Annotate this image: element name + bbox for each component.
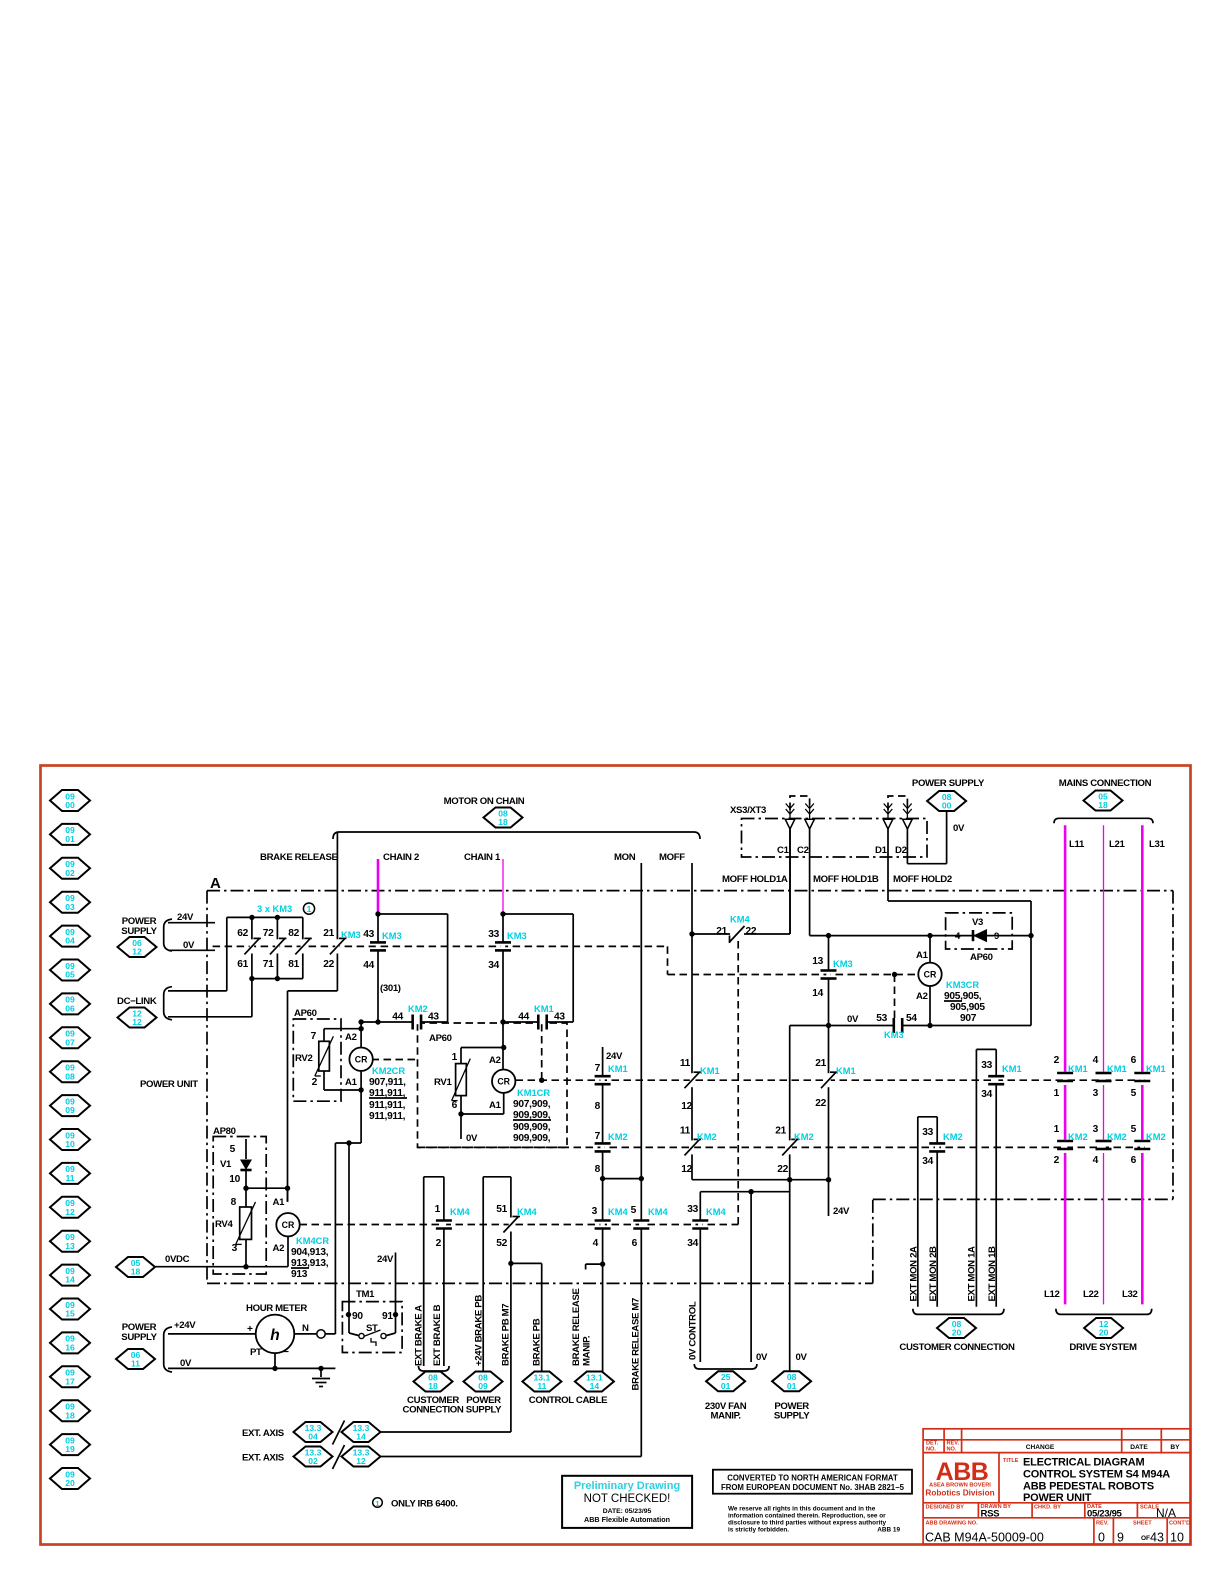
hexagon flag 09/17 xyxy=(50,1366,90,1387)
wire: +24V to hour meter xyxy=(168,1333,256,1335)
wire: KM2CR A2 link xyxy=(360,1022,362,1048)
hexagon flag 09/19 xyxy=(50,1434,90,1455)
svg-text:5: 5 xyxy=(1131,1124,1137,1135)
svg-text:909,909,: 909,909, xyxy=(513,1133,551,1144)
AP60 dashed box around KM1CR xyxy=(418,1023,568,1147)
contact KM3 82/81 xyxy=(301,939,305,953)
hexagon flag 09/15 xyxy=(50,1299,90,1320)
mains line magenta x=1103.5 xyxy=(1103,825,1105,1072)
dashed KM1CR link xyxy=(541,1024,543,1080)
node: CHAIN2 drop xyxy=(377,914,379,1022)
svg-text:D1: D1 xyxy=(875,845,888,856)
svg-text:2: 2 xyxy=(312,1077,318,1088)
hexagon flag 08/18 customer conn xyxy=(414,1372,453,1392)
svg-text:CHKD. BY: CHKD. BY xyxy=(1034,1505,1061,1511)
wire: KM1CR A2 link xyxy=(502,1022,504,1070)
chain2 magenta xyxy=(377,859,380,914)
hexagon flag 25/01 fan xyxy=(706,1371,745,1391)
svg-text:CR: CR xyxy=(497,1077,510,1087)
svg-text:14: 14 xyxy=(812,988,823,999)
svg-text:KM1: KM1 xyxy=(1107,1064,1127,1074)
svg-text:4: 4 xyxy=(1093,1155,1099,1166)
svg-text:HOUR METER: HOUR METER xyxy=(246,1303,307,1314)
svg-text:11: 11 xyxy=(680,1126,691,1137)
svg-text:KM4: KM4 xyxy=(706,1207,726,1217)
preliminary drawing box xyxy=(562,1476,692,1528)
svg-text:12: 12 xyxy=(681,1164,692,1175)
svg-text:0: 0 xyxy=(1098,1531,1105,1545)
svg-text:ELECTRICAL DIAGRAM: ELECTRICAL DIAGRAM xyxy=(1023,1457,1145,1469)
svg-text:KM2: KM2 xyxy=(794,1132,814,1142)
hexagon flag 13.1/14 xyxy=(575,1372,614,1392)
svg-text:KM1: KM1 xyxy=(1068,1064,1088,1074)
svg-text:−: − xyxy=(283,1347,289,1358)
svg-text:SUPPLY: SUPPLY xyxy=(774,1411,810,1422)
svg-text:h: h xyxy=(270,1327,279,1344)
svg-text:SUPPLY: SUPPLY xyxy=(121,1332,157,1343)
bracket drive system bottom xyxy=(1056,1309,1152,1315)
wire: V1/RV4 column xyxy=(245,1139,247,1159)
dashed KM2 row xyxy=(418,1146,1146,1148)
wire: V3 diode line xyxy=(930,935,1031,937)
svg-text:L11: L11 xyxy=(1069,839,1085,850)
svg-text:is strictly forbidden.: is strictly forbidden. xyxy=(728,1527,789,1534)
svg-text:911,911,: 911,911, xyxy=(369,1111,406,1122)
svg-text:12: 12 xyxy=(65,1207,75,1217)
svg-text:KM1: KM1 xyxy=(836,1066,856,1076)
svg-text:A2: A2 xyxy=(489,1055,501,1066)
svg-text:22: 22 xyxy=(746,926,757,937)
svg-text:KM1: KM1 xyxy=(700,1066,720,1076)
wire: C2 drop to V3 feed xyxy=(809,828,811,936)
svg-text:KM2: KM2 xyxy=(697,1132,717,1142)
svg-text:11: 11 xyxy=(65,1173,74,1183)
hexagon flag 09/14 xyxy=(50,1265,90,1286)
svg-text:44: 44 xyxy=(392,1012,403,1023)
contact KM1 21/22 xyxy=(826,1073,830,1087)
svg-text:11: 11 xyxy=(131,1359,140,1369)
svg-text:14: 14 xyxy=(590,1381,600,1391)
svg-text:C2: C2 xyxy=(797,845,809,856)
svg-text:L12: L12 xyxy=(1044,1289,1059,1300)
svg-text:EXT MON 1A: EXT MON 1A xyxy=(967,1246,978,1302)
svg-text:04: 04 xyxy=(65,936,75,946)
border frame xyxy=(41,766,1191,1545)
svg-text:34: 34 xyxy=(981,1089,992,1100)
svg-text:14: 14 xyxy=(65,1275,75,1285)
dashed KM3 contact row xyxy=(213,945,668,947)
svg-text:DRIVE SYSTEM: DRIVE SYSTEM xyxy=(1069,1342,1137,1353)
svg-text:24V: 24V xyxy=(177,912,194,923)
contact KM2 1/2 xyxy=(1063,1140,1067,1149)
wire: MOFF vertical xyxy=(691,863,693,1180)
contact 72-71 vertical xyxy=(276,917,278,978)
hexagon flag 09/08 xyxy=(50,1061,90,1082)
contact KM3 53/54 xyxy=(893,1023,903,1027)
wire: V1 junction row xyxy=(246,1187,288,1189)
hexagon flag 08/18 motor on chain xyxy=(484,808,523,828)
svg-text:NO.: NO. xyxy=(926,1447,936,1453)
svg-text:A2: A2 xyxy=(273,1243,285,1254)
contact KM3 33/34 xyxy=(501,942,505,951)
svg-text:1: 1 xyxy=(435,1204,441,1215)
svg-text:17: 17 xyxy=(65,1376,75,1386)
varistor RV1 xyxy=(456,1064,467,1096)
svg-text:KM2: KM2 xyxy=(1107,1132,1127,1142)
svg-text:DESIGNED BY: DESIGNED BY xyxy=(926,1505,965,1511)
svg-text:06: 06 xyxy=(65,1004,75,1014)
svg-text:CONVERTED TO NORTH AMERICAN: CONVERTED TO NORTH AMERICAN FORMAT xyxy=(727,1474,898,1483)
hexagon flag 09/07 xyxy=(50,1027,90,1048)
hexagon flag 09/10 xyxy=(50,1129,90,1150)
svg-text:22: 22 xyxy=(323,959,334,970)
AP60 RV2 dash-dot box xyxy=(293,1019,341,1101)
svg-text:information contained therein.: information contained therein. Reproduct… xyxy=(728,1513,886,1520)
hexagon flag 09/13 xyxy=(50,1231,90,1252)
svg-text:CR: CR xyxy=(282,1220,295,1230)
svg-text:KM3: KM3 xyxy=(382,931,402,941)
wire: EXT BRAKE pair U xyxy=(424,1176,444,1178)
wire: KM3CR coil A1/A2 xyxy=(929,936,931,963)
wire: right loop down from 53/54 row xyxy=(789,1026,791,1180)
svg-text:L22: L22 xyxy=(1083,1289,1098,1300)
svg-text:01: 01 xyxy=(65,834,75,844)
svg-text:33: 33 xyxy=(922,1127,933,1138)
wire: hour meter N link xyxy=(294,1333,335,1335)
contact KM3 21/22 xyxy=(335,939,339,953)
svg-text:1: 1 xyxy=(307,904,312,914)
hexagon flag 08/20 customer xyxy=(937,1318,976,1338)
svg-text:N: N xyxy=(302,1323,309,1334)
wire: to hour meter N xyxy=(334,1143,336,1334)
wire: BRAKE RELEASE jog to KM4CR A1 xyxy=(288,990,338,992)
svg-text:CHANGE: CHANGE xyxy=(1026,1444,1055,1451)
contact KM4 3/4 xyxy=(600,1220,604,1229)
contact KM1 4/3 xyxy=(1101,1072,1105,1081)
svg-text:911,911,: 911,911, xyxy=(369,1100,406,1111)
svg-text:KM3CR: KM3CR xyxy=(946,980,979,990)
svg-text:+: + xyxy=(247,1324,253,1335)
svg-text:01: 01 xyxy=(721,1381,731,1391)
svg-text:XS3/XT3: XS3/XT3 xyxy=(730,805,766,816)
wire: KM1 44/43 row xyxy=(503,1021,573,1023)
svg-text:18: 18 xyxy=(131,1267,141,1277)
svg-text:34: 34 xyxy=(922,1156,933,1167)
svg-text:A1: A1 xyxy=(489,1100,502,1111)
svg-text:1: 1 xyxy=(375,1499,379,1508)
svg-text:905,905: 905,905 xyxy=(950,1002,985,1013)
svg-text:POWER UNIT: POWER UNIT xyxy=(1023,1492,1092,1504)
junction dots xyxy=(249,915,254,920)
wire: C1 drop xyxy=(789,828,791,934)
svg-text:EXT BRAKE B: EXT BRAKE B xyxy=(432,1304,443,1366)
svg-text:02: 02 xyxy=(65,868,75,878)
ground symbol xyxy=(312,1378,330,1380)
svg-text:AP80: AP80 xyxy=(213,1126,236,1137)
svg-text:18: 18 xyxy=(65,1410,75,1420)
contact KM3 72/71 xyxy=(275,939,279,953)
svg-text:FROM EUROPEAN DOCUMENT No.: FROM EUROPEAN DOCUMENT No. 3HAB 2821−5 xyxy=(721,1483,905,1492)
svg-text:2: 2 xyxy=(1054,1155,1060,1166)
node: CHAIN1 drop xyxy=(502,914,504,1022)
mains line magenta x=1065.1 xyxy=(1064,825,1067,1072)
svg-text:51: 51 xyxy=(496,1204,507,1215)
svg-text:907: 907 xyxy=(960,1013,977,1024)
svg-text:V3: V3 xyxy=(972,917,983,928)
svg-text:6: 6 xyxy=(1131,1155,1137,1166)
svg-text:KM1: KM1 xyxy=(1146,1064,1166,1074)
svg-text:NO.: NO. xyxy=(947,1447,957,1453)
dashed KM1 row xyxy=(516,1079,1146,1081)
contact KM2 44/43 xyxy=(412,1020,422,1024)
wire: KM2CR output down xyxy=(360,1090,362,1143)
svg-text:KM4: KM4 xyxy=(648,1207,668,1217)
hexagon flag 12/12 xyxy=(118,1008,157,1028)
contact 82-81 vertical xyxy=(302,917,304,978)
svg-text:10: 10 xyxy=(1170,1531,1184,1545)
svg-text:43: 43 xyxy=(428,1012,439,1023)
svg-text:3: 3 xyxy=(1093,1124,1099,1135)
hexagon flag 09/20 xyxy=(50,1468,90,1489)
wire: 7/8 contact column + MANIP xyxy=(602,1047,604,1372)
svg-text:KM4: KM4 xyxy=(450,1207,470,1217)
svg-text:24V: 24V xyxy=(377,1254,394,1265)
svg-text:3: 3 xyxy=(1093,1088,1099,1099)
dashed KM2CR link xyxy=(372,1059,418,1061)
diode V1 xyxy=(240,1169,251,1172)
svg-text:N/A: N/A xyxy=(1156,1506,1176,1520)
svg-text:TM1: TM1 xyxy=(356,1289,375,1300)
svg-text:DATE: 05/23/95: DATE: 05/23/95 xyxy=(603,1508,652,1515)
svg-text:16: 16 xyxy=(65,1343,75,1353)
svg-text:DATE: DATE xyxy=(1130,1444,1148,1451)
svg-text:15: 15 xyxy=(65,1309,75,1319)
svg-text:KM1: KM1 xyxy=(1002,1064,1022,1074)
wire: EXT AXIS row1 xyxy=(381,1431,511,1433)
hexagon flag 08/01 power supply xyxy=(772,1371,811,1391)
TM1 dash-dot box xyxy=(342,1302,402,1353)
wire: brake PB pair U xyxy=(483,1176,511,1178)
contact KM2 7/8 xyxy=(600,1143,604,1152)
slash between ext axis hexagons r1 xyxy=(333,1421,345,1445)
svg-text:2: 2 xyxy=(1054,1055,1060,1066)
wire: DC-LINK lower xyxy=(168,1016,252,1018)
svg-text:03: 03 xyxy=(65,902,75,912)
svg-text:BRAKE RELEASE M7: BRAKE RELEASE M7 xyxy=(631,1298,642,1390)
wire: TM1 24V feed xyxy=(395,1253,397,1316)
svg-text:SUPPLY: SUPPLY xyxy=(121,926,157,937)
svg-text:07: 07 xyxy=(65,1037,75,1047)
contact KM1 7/8 xyxy=(600,1076,604,1085)
relay coil KM1CR xyxy=(492,1070,515,1093)
wire: D1 drop to KM3CR box xyxy=(887,828,889,901)
svg-text:KM4: KM4 xyxy=(517,1207,537,1217)
erasers for contacts xyxy=(250,939,254,953)
svg-text:10: 10 xyxy=(229,1174,240,1185)
dashed link to 53/54 xyxy=(894,975,896,1021)
wire: BRAKE RELEASE vertical xyxy=(336,832,338,991)
wire: KM3 13/14 drop xyxy=(828,936,830,1180)
svg-text:disclosure to third parties wi: disclosure to third parties without expr… xyxy=(728,1520,886,1527)
contact KM2 5/6 xyxy=(1140,1140,1144,1149)
svg-text:L21: L21 xyxy=(1109,839,1125,850)
contact KM2 11/12 xyxy=(690,1140,694,1154)
boundary A dash-dot box xyxy=(207,890,1173,892)
svg-text:12: 12 xyxy=(132,947,142,957)
hexagon flag ext axis 13.3/04 xyxy=(294,1422,333,1442)
svg-text:AP60: AP60 xyxy=(970,952,993,963)
svg-text:21: 21 xyxy=(716,926,727,937)
svg-text:0V: 0V xyxy=(847,1014,859,1025)
svg-text:OF: OF xyxy=(1141,1535,1150,1542)
svg-text:907,909,: 907,909, xyxy=(513,1099,551,1110)
svg-text:52: 52 xyxy=(496,1238,507,1249)
svg-text:20: 20 xyxy=(65,1478,75,1488)
wire: fan 0V column xyxy=(750,1192,752,1362)
hexagon flag ext axis 13.3/14 xyxy=(342,1422,381,1442)
svg-text:18: 18 xyxy=(498,817,508,827)
contact KM2 3/4 xyxy=(1101,1140,1105,1149)
svg-text:A2: A2 xyxy=(916,991,928,1002)
svg-text:KM2CR: KM2CR xyxy=(372,1066,405,1076)
circled 1 bottom note xyxy=(373,1498,383,1508)
svg-text:CONTROL CABLE: CONTROL CABLE xyxy=(529,1395,608,1406)
svg-text:0VDC: 0VDC xyxy=(165,1254,190,1265)
contact KM1 11/12 xyxy=(690,1073,694,1087)
hexagon flag 06/11 xyxy=(116,1349,155,1369)
svg-text:ST: ST xyxy=(366,1323,378,1334)
contact KM2 33/34 xyxy=(935,1143,939,1152)
svg-text:3 x KM3: 3 x KM3 xyxy=(257,904,292,914)
svg-text:L31: L31 xyxy=(1149,839,1165,850)
dashed KM4 link from top contact xyxy=(737,941,739,1225)
svg-text:Preliminary Drawing: Preliminary Drawing xyxy=(574,1480,680,1492)
svg-text:34: 34 xyxy=(488,960,499,971)
wire: 0V bottom xyxy=(168,1367,335,1369)
contact KM4 33/34 xyxy=(698,1220,702,1229)
svg-text:02: 02 xyxy=(308,1456,318,1466)
svg-text:A1: A1 xyxy=(345,1077,358,1088)
svg-text:3: 3 xyxy=(232,1243,238,1254)
svg-text:72: 72 xyxy=(263,928,274,939)
svg-text:KM2: KM2 xyxy=(408,1004,428,1014)
hexagon flag 09/02 xyxy=(50,858,90,879)
wire: EXT MON 2A/2B xyxy=(918,1116,937,1118)
svg-text:SUPPLY: SUPPLY xyxy=(466,1405,502,1416)
svg-text:7: 7 xyxy=(311,1031,317,1042)
svg-text:BRAKE RELEASE: BRAKE RELEASE xyxy=(260,852,338,863)
svg-text:90: 90 xyxy=(352,1311,363,1322)
slash between ext axis hexagons r2 xyxy=(333,1445,345,1469)
svg-text:9: 9 xyxy=(994,931,999,942)
svg-text:5: 5 xyxy=(1131,1088,1137,1099)
varistor RV2 xyxy=(319,1041,330,1071)
svg-text:00: 00 xyxy=(942,801,952,811)
wire: KM4 contact row top right xyxy=(692,933,790,935)
converted to box xyxy=(713,1470,912,1494)
svg-text:11: 11 xyxy=(537,1381,546,1391)
svg-text:CONNECTION: CONNECTION xyxy=(403,1405,464,1416)
svg-text:MOFF HOLD1B: MOFF HOLD1B xyxy=(813,874,879,885)
svg-text:907,911,: 907,911, xyxy=(369,1077,406,1088)
TM1 switch circles xyxy=(359,1333,364,1338)
svg-text:We reserve all rights in this: We reserve all rights in this document a… xyxy=(728,1506,876,1513)
svg-text:KM4: KM4 xyxy=(608,1207,628,1217)
wire: 0V stub power supply xyxy=(168,949,215,951)
contact KM3 13/14 xyxy=(826,970,830,979)
hexagon flag 08/09 power supply xyxy=(464,1372,503,1392)
svg-text:AP60: AP60 xyxy=(429,1033,452,1044)
svg-text:0V: 0V xyxy=(953,823,965,834)
svg-text:RV2: RV2 xyxy=(295,1053,312,1064)
svg-text:18: 18 xyxy=(1098,800,1108,810)
svg-text:EXT MON 2B: EXT MON 2B xyxy=(928,1246,939,1302)
svg-text:21: 21 xyxy=(323,928,334,939)
wire: RV1 top xyxy=(460,1048,462,1064)
svg-text:EXT. AXIS: EXT. AXIS xyxy=(242,1428,285,1439)
connector pins C1 C2 D1 D2 xyxy=(789,806,791,819)
contact KM4 5/6 xyxy=(639,1220,643,1229)
svg-text:5: 5 xyxy=(230,1144,236,1155)
svg-text:(301): (301) xyxy=(380,983,401,994)
svg-text:9: 9 xyxy=(1117,1531,1124,1545)
hexagon flag 09/05 xyxy=(50,960,90,981)
svg-text:CR: CR xyxy=(355,1055,368,1065)
wire: hour meter bottom xyxy=(274,1353,276,1368)
svg-text:08: 08 xyxy=(65,1071,75,1081)
svg-text:20: 20 xyxy=(1099,1328,1109,1338)
svg-text:8: 8 xyxy=(595,1101,601,1112)
wire: to TM1 90 xyxy=(348,1143,350,1315)
brace DC-LINK xyxy=(164,987,172,1020)
svg-text:0V: 0V xyxy=(796,1352,808,1363)
svg-text:61: 61 xyxy=(237,959,248,970)
svg-text:ABB 19: ABB 19 xyxy=(877,1527,900,1534)
svg-text:KM1: KM1 xyxy=(608,1064,628,1074)
wire: 24V stub below KM1 21/22 xyxy=(828,1180,830,1216)
svg-text:0V: 0V xyxy=(183,940,195,951)
svg-text:34: 34 xyxy=(687,1238,698,1249)
hexagon flag 13.1/11 xyxy=(522,1372,561,1392)
svg-text:8: 8 xyxy=(595,1164,601,1175)
svg-text:82: 82 xyxy=(288,928,299,939)
svg-text:4: 4 xyxy=(593,1238,599,1249)
brace power supply top xyxy=(164,919,172,951)
svg-text:21: 21 xyxy=(815,1058,826,1069)
svg-text:KM2: KM2 xyxy=(608,1132,628,1142)
wire: RV2 bottom / KM2CR A1 xyxy=(323,1071,325,1090)
svg-text:6: 6 xyxy=(632,1238,638,1249)
svg-text:8: 8 xyxy=(231,1197,237,1208)
AP80 dash-dot box xyxy=(213,1137,266,1275)
wire: 51/52 to BRAKE PB xyxy=(511,1262,542,1264)
svg-text:KM2: KM2 xyxy=(1068,1132,1088,1142)
wire: chain1 loop right xyxy=(503,913,573,915)
svg-text:SHEET: SHEET xyxy=(1133,1521,1152,1527)
svg-text:A2: A2 xyxy=(345,1032,357,1043)
svg-text:CUSTOMER CONNECTION: CUSTOMER CONNECTION xyxy=(899,1342,1015,1353)
svg-text:19: 19 xyxy=(65,1444,75,1454)
svg-text:14: 14 xyxy=(356,1432,366,1442)
wire: fan U row xyxy=(700,1191,789,1193)
svg-text:RV4: RV4 xyxy=(215,1219,233,1230)
hexagon flag 05/18 mains xyxy=(1084,791,1123,811)
svg-text:1: 1 xyxy=(1054,1124,1060,1135)
hexagon flag 09/01 xyxy=(50,824,90,845)
svg-text:12: 12 xyxy=(681,1101,692,1112)
hexagon flag 09/06 xyxy=(50,993,90,1014)
svg-text:KM3: KM3 xyxy=(507,931,527,941)
